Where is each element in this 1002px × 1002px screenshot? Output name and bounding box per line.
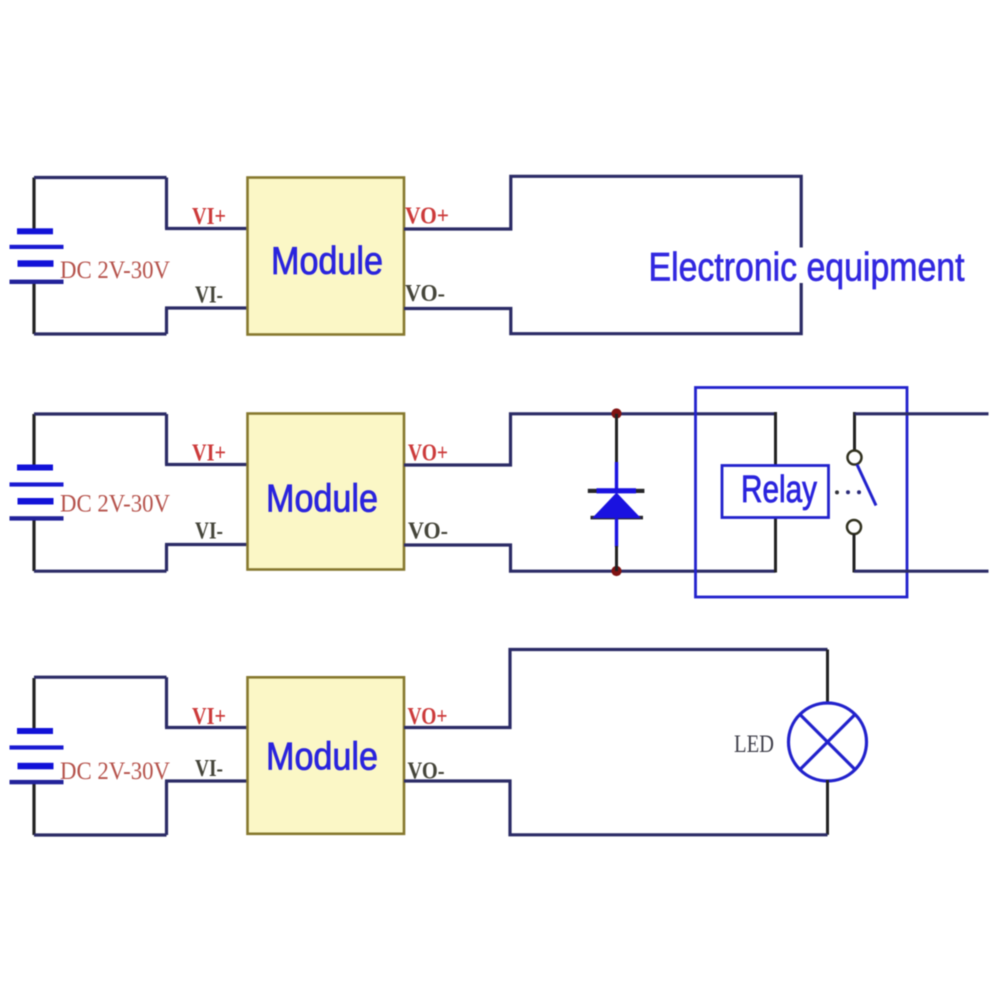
junction node N2 (bottom) [611, 566, 621, 576]
wire B2+ top rail [34, 412, 167, 415]
battery B1 positive stem wire [32, 178, 35, 230]
battery B1 plate 1 (thick short) [17, 228, 53, 234]
battery B3 plate 3 (thick short) [18, 763, 54, 770]
relay K1 actuation dotted link [835, 490, 839, 494]
wire U2 VO+ up to top rail [404, 414, 776, 465]
wire step down to VI+ level [165, 677, 168, 727]
battery B2 negative stem wire [32, 520, 35, 571]
battery B2 plate 4 (thin long) [10, 516, 64, 520]
wire B3+ top rail [34, 676, 167, 679]
battery B1 negative stem wire [32, 283, 35, 334]
module U2 box [248, 414, 405, 570]
wire VI+ into module U3 [165, 726, 248, 729]
battery B3 plate 2 (thin long) [10, 745, 64, 749]
wire step up to VI- level [165, 781, 168, 835]
wire VI- into module U3 [165, 779, 248, 782]
diode D1 cathode bar dark underlay [588, 489, 645, 493]
module U3 box [248, 677, 405, 834]
wire VI+ into module U2 [165, 463, 248, 466]
relay K1 switch bottom contact [847, 520, 861, 534]
wire B1+ top rail to module U1 VI+ [34, 176, 167, 179]
wire U3 VO+ up and right to lamp [404, 650, 828, 728]
svg-text:Module: Module [266, 736, 378, 779]
wire B2- bottom rail [34, 570, 167, 573]
diode D1 cathode stem wire (black part) [615, 414, 618, 463]
svg-text:DC 2V-30V: DC 2V-30V [60, 491, 170, 518]
wire VI- into module U2 [165, 543, 248, 546]
wire step up to VI- level [165, 545, 168, 572]
lamp LED1 circle [789, 703, 867, 781]
relay K1 switch bottom lead wire [853, 534, 856, 573]
wire U1 VO+ to equipment box [404, 176, 801, 247]
diode D1 anode stem wire (black part) [615, 546, 618, 571]
svg-text:VI+: VI+ [192, 704, 226, 730]
wire step down to VI+ level [165, 414, 168, 465]
svg-text:VO+: VO+ [408, 440, 448, 466]
wire VI+ into module U1 [165, 227, 248, 230]
svg-text:DC 2V-30V: DC 2V-30V [60, 758, 170, 785]
diode D1 cathode bar [597, 488, 637, 493]
svg-text:VO-: VO- [408, 519, 448, 545]
relay K1 coil box [722, 466, 829, 518]
wire step down to VI+ level [165, 178, 168, 229]
relay K1 switch top contact [848, 451, 862, 465]
svg-text:VO+: VO+ [405, 204, 449, 230]
battery B3 plate 1 (thick short) [17, 728, 53, 734]
wire switch bottom to external load (right) [854, 570, 989, 573]
relay K1 outer box [696, 388, 908, 598]
diode D1 cathode lead (blue part) [615, 462, 618, 490]
wire VI- into module U1 [165, 306, 248, 309]
svg-text:LED: LED [734, 731, 774, 758]
relay K1 switch top lead wire [853, 412, 856, 451]
battery B2 positive stem wire [32, 414, 35, 467]
junction node N1 (top) [611, 408, 621, 418]
svg-text:Electronic equipment: Electronic equipment [649, 245, 965, 289]
svg-text:VI+: VI+ [192, 440, 226, 466]
svg-text:VO-: VO- [405, 281, 445, 307]
wire step up to VI- level [165, 308, 168, 334]
relay K1 coil top lead wire [774, 412, 777, 466]
wire B3- bottom rail [34, 833, 167, 836]
svg-text:VI-: VI- [195, 519, 223, 545]
module U1 box [248, 178, 405, 335]
battery B1 plate 2 (thin long) [10, 245, 64, 249]
wire U3 VO- down and right to lamp [404, 781, 828, 835]
diode D1 anode triangle [592, 493, 641, 519]
svg-text:DC 2V-30V: DC 2V-30V [60, 257, 170, 284]
wire U2 VO- down to bottom rail [404, 545, 776, 571]
lamp LED1 cross stroke 1 [800, 715, 855, 770]
battery B3 negative stem wire [32, 783, 35, 835]
wire U1 VO- to equipment box [404, 283, 801, 334]
battery B2 plate 1 (thick short) [17, 465, 53, 471]
battery B1 plate 3 (thick short) [18, 260, 54, 267]
svg-text:Module: Module [266, 478, 378, 521]
wire B1- bottom rail [34, 332, 167, 335]
svg-text:VI-: VI- [195, 756, 223, 782]
relay K1 switch blade [857, 465, 876, 506]
relay K1 coil bottom lead wire [774, 517, 777, 573]
battery B2 plate 2 (thin long) [10, 482, 64, 486]
wire switch top to external load (right) [855, 412, 989, 415]
lamp LED1 cross stroke 2 [800, 715, 855, 770]
battery B3 positive stem wire [32, 678, 35, 731]
wire lamp top lead [826, 650, 829, 705]
battery B1 plate 4 (thin long) [10, 280, 64, 284]
svg-text:VI-: VI- [195, 283, 223, 309]
svg-text:Relay: Relay [741, 469, 817, 511]
battery B3 plate 4 (thin long) [10, 780, 64, 784]
wire lamp bottom lead [826, 780, 829, 835]
diode D1 anode base dark underlay [591, 516, 644, 520]
svg-text:VI+: VI+ [192, 204, 226, 230]
battery B2 plate 3 (thick short) [18, 498, 54, 505]
diode D1 anode lead (blue part) [615, 518, 618, 547]
svg-text:Module: Module [271, 240, 383, 283]
